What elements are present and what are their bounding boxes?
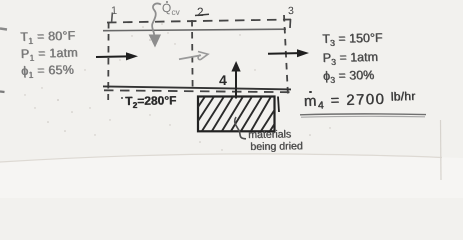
Qdot_cv heat arrow head (gray, down) [149,35,161,48]
left margin tick upper [0,29,7,30]
materials tray: hatched rectangle [198,97,275,132]
paper lower strip below page edge [0,154,463,198]
duct bottom wall (solid line) [103,86,291,89]
state 1 text block [20,30,78,82]
label 2 [197,4,204,18]
tray right edge double stroke [278,97,279,113]
dot over m [309,91,312,94]
section 2 dashed line (middle) [191,20,194,87]
page edge faint wavy line [0,154,442,162]
m4 flow rate equation [303,89,415,111]
duct top wall (solid pencil line) [103,29,286,31]
control volume bottom dashed boundary [104,90,290,92]
outlet flow arrow (state 3) [268,49,309,57]
control volume right dashed boundary [284,15,288,96]
internal gray flow arrow (section 2) [179,52,208,60]
caption: materials being dried [248,129,303,153]
control volume left dashed boundary [107,22,109,100]
label 1 [111,5,118,17]
faint vertical page line right [440,120,443,180]
small dot before T2 [121,97,123,99]
underline (double) of m4 equation [300,114,426,117]
Qdot_cv label [162,1,180,17]
stream 4 arrow (upward into duct) [231,61,240,99]
state 3 text block [322,31,383,88]
paper speckle texture [24,23,330,151]
Qdot_cv squiggle lead [152,4,161,35]
tick below label 1 [111,13,114,23]
top-right corner tick of dashed boundary [289,19,292,28]
inlet flow arrow (state 1) [96,52,138,60]
label 4 [219,72,227,88]
dot over Q [166,1,168,3]
label 3 [288,5,294,17]
left margin tick lower [0,90,5,93]
control volume top dashed boundary [107,20,291,23]
underline swoosh of label 2 [195,14,209,15]
leader line from tray to caption [235,117,246,139]
T2 label inside duct [125,93,176,110]
